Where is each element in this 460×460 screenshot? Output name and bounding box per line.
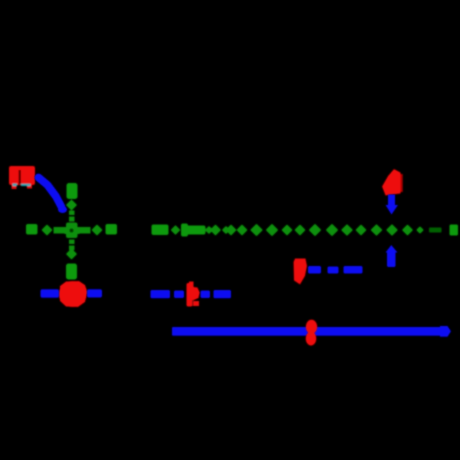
wire (blue lead, left of D1) xyxy=(41,289,60,298)
wire (blue up-arrow below net, right) xyxy=(386,245,398,267)
node A (green junction cross) xyxy=(26,183,117,280)
wire (blue lead, right of D1) xyxy=(87,289,102,297)
wire (blue dashed leads around D2) xyxy=(151,290,232,298)
wire (long blue net, bottom) xyxy=(172,326,451,337)
wire (blue diagonal from U1 to node A) xyxy=(39,178,68,214)
probe marker P1 (red flag, upper right) xyxy=(382,169,403,196)
wire (blue dashed segments right of P2) xyxy=(308,266,363,274)
component U1 (red body, top-left) xyxy=(9,166,35,189)
wire (blue down-arrow from P1 to net) xyxy=(386,195,399,215)
component D1 (red round body, lower left) xyxy=(59,281,88,307)
component D2 (red body, lower middle) xyxy=(187,282,200,307)
probe marker P2 (red flag, middle) xyxy=(294,259,308,285)
wire (green dotted net, right run) xyxy=(152,224,459,237)
node B (red junction marker on bottom net) xyxy=(306,320,317,346)
